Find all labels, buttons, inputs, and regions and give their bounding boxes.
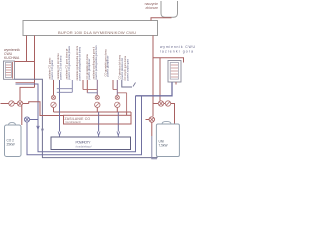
heat exchanger W1	[4, 61, 15, 79]
wire pump P2 down (red)	[53, 108, 55, 113]
pipe labels group 1	[48, 46, 72, 80]
wire pump-valve (red)	[14, 103, 17, 105]
wire station1 bridge (blue)	[57, 80, 73, 92]
arrow A1	[58, 132, 61, 136]
valve V3	[51, 95, 55, 99]
svg-text:wymiennik CWU: wymiennik CWU	[160, 45, 196, 49]
valve tick	[133, 83, 136, 87]
station 1 pump feed (red)	[53, 80, 55, 95]
pump P4	[115, 102, 120, 107]
wire vessel to buffer (red)	[151, 18, 172, 21]
wire station3 blue elbow	[122, 80, 132, 87]
svg-text:powrot CO gora domu prawa: powrot CO gora domu prawa	[67, 46, 71, 80]
buffer tank B1	[23, 21, 158, 36]
valve V1	[17, 101, 22, 106]
station 3 label pipe	[112, 80, 114, 90]
wire to pump row left (red)	[20, 87, 35, 100]
svg-text:powrot CO garaz: powrot CO garaz	[50, 59, 54, 79]
wire buffer to exchanger W1 supply (red)	[15, 36, 35, 62]
heat exchanger W2	[168, 61, 181, 83]
svg-text:lazienki gora: lazienki gora	[160, 50, 193, 54]
wire buffer right drop (red)	[152, 36, 154, 117]
wire station3 return arrow line (blue)	[117, 112, 119, 132]
valve V2 (blue)	[24, 117, 29, 122]
wire valve V7 left stub (red)	[146, 119, 150, 121]
station 2 rungs	[83, 89, 97, 91]
svg-text:powrot CO dol domu: powrot CO dol domu	[59, 55, 63, 79]
wire valve V2 drop wrap (blue)	[27, 96, 142, 155]
wire return manifold horizontal (blue)	[136, 82, 173, 96]
pump P5	[165, 101, 170, 106]
pump P2	[51, 102, 56, 107]
station 3 rungs	[113, 89, 117, 91]
arrow A2	[97, 132, 100, 136]
valve V7	[149, 117, 154, 122]
svg-text:powrot grzejnikow: powrot grzejnikow	[87, 59, 91, 80]
svg-text:/rozdzielacz/: /rozdzielacz/	[76, 145, 92, 149]
wire valve right (red)	[23, 103, 29, 105]
wire pump P4 down (red)	[116, 108, 118, 113]
wire exchanger W1 secondary dark line to long riser	[15, 79, 158, 157]
valve V6	[158, 101, 163, 106]
wire overlay crossing manifold (blue)	[99, 115, 119, 124]
station 2 label pipes	[83, 80, 87, 93]
wire buffer drop left (red)	[34, 36, 36, 88]
valve V5	[115, 95, 119, 99]
wire pump row left edge (red)	[1, 103, 9, 105]
svg-text:KUCHNIA: KUCHNIA	[4, 56, 20, 60]
wire supply corridor (red)	[54, 112, 132, 115]
wire exchanger W1 blue line to valve V2 and wrap	[16, 84, 136, 152]
wire valve V7 drop (red)	[151, 122, 153, 136]
wire corner to manifold (red)	[29, 102, 64, 116]
svg-text:powrot podlogowka gora dom: powrot podlogowka gora dom	[94, 45, 98, 79]
boiler K2 cap	[162, 121, 171, 124]
wire W2 supply drop (red)	[159, 58, 161, 101]
wire right pump row (red)	[153, 104, 175, 125]
svg-text:BUFOR 100l DLA WYMIENNIKOW CWU: BUFOR 100l DLA WYMIENNIKOW CWU	[58, 30, 136, 35]
station 3 column feed	[116, 80, 118, 95]
wire exchanger W2 secondary stub (red)	[175, 82, 177, 85]
boiler K1 cap	[9, 123, 16, 125]
wire riser to valve V2 (blue)	[30, 119, 38, 121]
wire to exchanger W2 (red)	[153, 58, 184, 63]
expansion vessel N1	[161, 1, 178, 17]
boiler K1	[5, 125, 22, 157]
pump P1	[9, 101, 14, 106]
boiler K2	[156, 124, 179, 157]
pipe labels group 3	[104, 49, 130, 81]
svg-text:powrot podlogowka dol domu: powrot podlogowka dol domu	[78, 46, 82, 80]
svg-text:25kW: 25kW	[7, 143, 15, 147]
svg-text:powrot grzejnikow: powrot grzejnikow	[106, 56, 110, 77]
arrow on long riser C	[41, 129, 43, 132]
svg-text:/rozdzielacz/: /rozdzielacz/	[65, 120, 81, 124]
wire station2 return arrow line (blue)	[98, 112, 100, 132]
wire pump P3 down (red)	[96, 108, 98, 113]
manifold M1 supply	[64, 115, 132, 124]
manifold M2 return	[51, 137, 131, 150]
svg-text:powrot strych gora: powrot strych gora	[126, 59, 130, 81]
wire station1 blue drop	[59, 80, 61, 132]
arrow A3	[117, 132, 120, 136]
arrow on left riser	[37, 126, 40, 130]
valve V4	[95, 95, 99, 99]
pump P3	[95, 102, 100, 107]
wire exchanger W1 red return	[16, 82, 35, 84]
pipe labels group 2	[75, 45, 98, 80]
wire valve to boiler K1 (red)	[21, 106, 23, 125]
wire drop to boiler K2 bottom (blue)	[152, 136, 157, 159]
svg-text:7,5kW: 7,5kW	[159, 144, 168, 148]
svg-text:zbiorcze: zbiorcze	[145, 6, 158, 10]
station 2 column feed	[96, 80, 98, 95]
